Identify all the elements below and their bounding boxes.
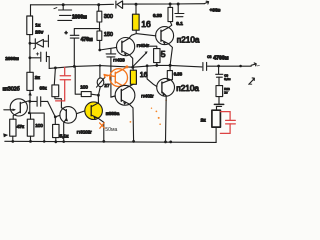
wire L to ground drop: [29, 113, 44, 141]
wire bus to R13: [54, 68, 55, 85]
transistor VT7 p210a lower: [147, 66, 174, 142]
svg-text:68к: 68к: [40, 85, 48, 90]
resistor R11 16 yellow lower: [130, 70, 136, 84]
node rail dots: [11, 140, 172, 143]
svg-text:+30в: +30в: [210, 7, 221, 12]
wire rail to R2: [98, 5, 100, 12]
svg-text:20v: 20v: [35, 30, 43, 36]
svg-text:3,3м: 3,3м: [224, 77, 230, 81]
wire VT4 to VT5 base: [77, 111, 85, 114]
wire R1 to node A: [29, 35, 31, 44]
node G: [97, 94, 100, 97]
svg-text:+: +: [65, 30, 68, 36]
wire node A to node B: [29, 43, 31, 58]
resistor R5 0.33: [168, 7, 173, 21]
svg-text:300: 300: [104, 14, 113, 20]
ground symbol right: [223, 91, 229, 96]
junction bar small: [216, 105, 221, 107]
svg-text:0.1: 0.1: [176, 21, 183, 26]
speaker arrow glyph: [248, 78, 254, 84]
svg-text:С8: С8: [207, 55, 211, 59]
+30v terminal arrow: [204, 1, 208, 4]
node B: [29, 56, 32, 59]
wire R12 to bus: [156, 63, 158, 66]
svg-text:16: 16: [140, 72, 148, 79]
capacitor C1 1000m top: [54, 5, 72, 21]
wire R10 to node G: [91, 94, 98, 95]
node C: [28, 100, 31, 103]
orange marker transistor overlay: [104, 65, 128, 86]
wire R11 to VT6: [128, 84, 133, 86]
transistor VT4 gt3102: [55, 107, 76, 142]
wire node D to R9: [54, 117, 57, 142]
wire bus to R11: [132, 67, 135, 70]
junction bar: [214, 103, 223, 105]
wire rail to R4: [135, 4, 137, 14]
wire node B to R6: [29, 58, 31, 73]
node F: [98, 49, 101, 52]
svg-text:5: 5: [161, 49, 166, 59]
wire R13 to VT4 collector: [55, 97, 62, 108]
resistor R1 1k: [27, 16, 33, 35]
transistor VT3 gt404g: [156, 22, 174, 66]
svg-text:п210а: п210а: [177, 35, 200, 44]
pot wiper arrow to R12: [133, 46, 157, 66]
svg-text:2к: 2к: [201, 117, 207, 123]
wire VT5 collector to node G: [97, 95, 99, 103]
svg-text:150: 150: [104, 32, 113, 38]
resistor R9 5.1k: [53, 124, 59, 137]
wire C4 diagonal to node D: [48, 101, 56, 117]
svg-text:100: 100: [80, 85, 88, 90]
wire R14 to VT7: [168, 79, 171, 82]
wire mid bus: [49, 65, 202, 68]
node E: [28, 112, 31, 115]
svg-text:4700м: 4700м: [213, 56, 229, 62]
wire top rail right: [129, 3, 205, 5]
svg-text:гт404г: гт404г: [137, 43, 150, 48]
transistor VT2 gt403: [100, 34, 136, 68]
svg-text:1000м: 1000м: [72, 14, 87, 20]
svg-text:16: 16: [141, 19, 151, 29]
node top rail dots: [62, 3, 180, 7]
wire R16 to rail: [215, 127, 217, 142]
trimmer RP1: [97, 66, 105, 96]
wire R10 left to bus: [75, 67, 81, 94]
wire to R16: [216, 106, 218, 110]
resistor R16 2k: [212, 110, 221, 127]
node A: [29, 42, 32, 45]
resistor R6 2k: [27, 72, 33, 90]
wire rail to R5: [169, 4, 171, 7]
capacitor C8 470m: [70, 29, 99, 67]
wire C3 to mid bus: [48, 57, 50, 69]
svg-text:кп302б: кп302б: [3, 87, 20, 93]
capacitor C11 red parallel R16: [220, 112, 235, 134]
resistor R14 0.33 lower: [167, 71, 172, 80]
svg-text:гт403: гт403: [113, 57, 125, 62]
resistor R7 47k: [10, 119, 16, 136]
svg-text:п609а: п609а: [106, 111, 120, 117]
transistor VT5 p609a yellow: [85, 102, 104, 142]
svg-text:1000м: 1000м: [5, 56, 19, 61]
diode VD1: [116, 1, 129, 8]
capacitor C6 bus coupling: [203, 62, 251, 70]
svg-text:0.33: 0.33: [174, 72, 183, 77]
capacitor C9 right: [216, 66, 223, 86]
ground rail input tick: [3, 133, 8, 137]
transistor VT1 kp302b JFET: [4, 99, 29, 119]
capacitor C5 base hang: [106, 49, 116, 98]
svg-text:27: 27: [104, 83, 110, 88]
wire R3 to base node F: [99, 40, 101, 50]
wire R6 to node C: [29, 90, 31, 101]
wire from rail down to R1: [30, 5, 32, 16]
diode VD2 zener branch: [30, 35, 49, 49]
wire top rail left: [31, 3, 114, 6]
capacitor C2 0.1: [175, 4, 184, 17]
svg-text:50ма: 50ма: [105, 127, 117, 133]
capacitor C10 red parallel R13: [56, 67, 71, 101]
svg-text:2к: 2к: [35, 75, 41, 81]
transistor VT6 gt402g: [111, 85, 135, 141]
svg-text:гт3102г: гт3102г: [77, 129, 92, 134]
resistor R2 300: [97, 11, 102, 22]
svg-text:1к: 1к: [35, 22, 41, 28]
svg-text:470м: 470м: [81, 37, 93, 43]
svg-text:п210а: п210а: [176, 84, 199, 93]
node bus right dots: [217, 65, 242, 68]
resistor R10 100 horizontal: [81, 92, 91, 97]
svg-text:0.33: 0.33: [153, 13, 162, 18]
capacitor C4 to driver base: [30, 97, 48, 106]
jfet drain arrow tick: [28, 92, 31, 96]
svg-text:гт402г: гт402г: [141, 93, 154, 98]
svg-text:100: 100: [35, 123, 43, 128]
wire R4 to VT3 base: [136, 30, 156, 36]
wire R2 to R3: [99, 22, 101, 31]
wire bus to R14: [169, 65, 171, 70]
resistor R4 16 yellow: [133, 14, 140, 30]
resistor R12 5: [154, 49, 160, 63]
resistor R8 100: [27, 119, 34, 136]
resistor R15: [216, 86, 223, 97]
resistor R3 150: [97, 31, 102, 40]
orange speckles: [130, 100, 167, 125]
wire bottom ground rail: [5, 141, 216, 142]
wire R7 to rail: [12, 136, 14, 141]
node D: [54, 116, 57, 119]
node bus dots: [54, 64, 172, 69]
svg-text:47к: 47к: [17, 124, 25, 129]
svg-text:5,1к: 5,1к: [60, 134, 69, 139]
capacitor C3 1000m coupling: [30, 52, 49, 62]
resistor R13 68k: [52, 85, 59, 97]
orange cross 50ma marker: [100, 123, 105, 129]
wire R15 down: [218, 97, 220, 104]
label R1 value: [35, 22, 43, 35]
output arrow right: [251, 63, 259, 66]
wire node C down: [29, 101, 31, 113]
wire R8 stubs: [30, 113, 32, 141]
